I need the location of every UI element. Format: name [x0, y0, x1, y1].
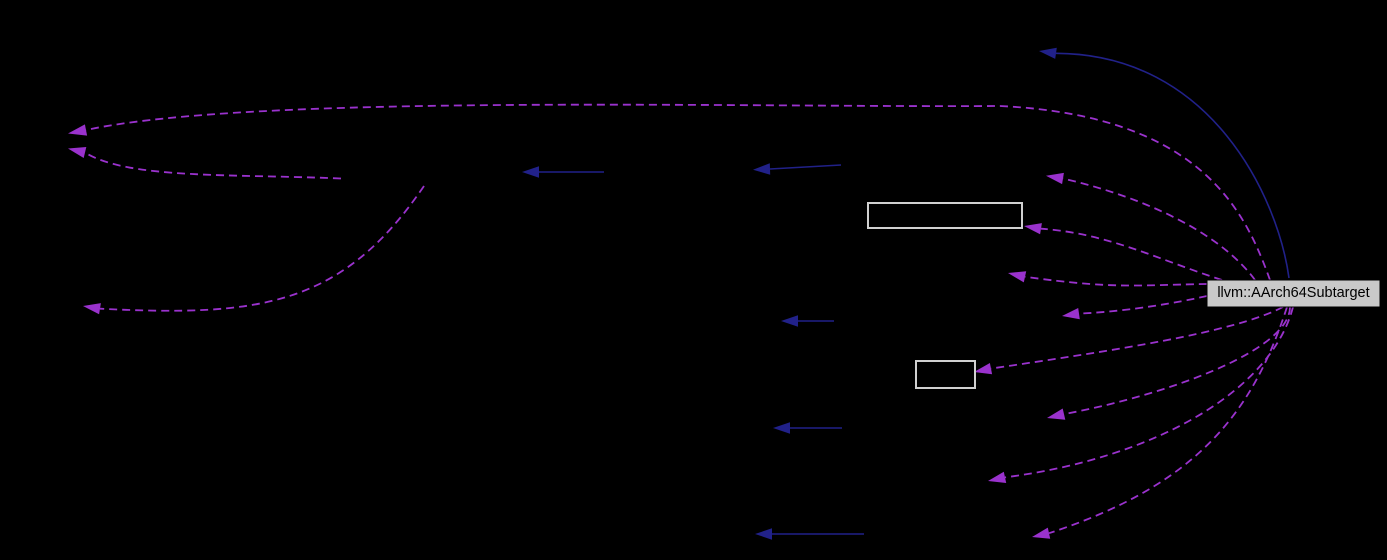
wire inheritB: [539, 171, 604, 173]
wire edge11 (node to mid node F): [1049, 307, 1287, 533]
wire edge2 (short left curve): [85, 153, 341, 179]
wire edge1 (node to far-left top sweep): [86, 105, 1270, 280]
node llvm::AArch64Subtarget: [1207, 280, 1380, 307]
node box1 (empty outlined): [868, 203, 1022, 228]
wire inheritC: [770, 165, 841, 169]
wire edge8 (node to box2): [991, 307, 1283, 369]
node box2 (empty outlined): [916, 361, 975, 388]
wire edge4 (node to mid node A): [1063, 179, 1255, 281]
wire edge9 (node to mid node D): [1064, 307, 1290, 414]
wire edge3 (down-left curve): [100, 186, 424, 311]
wire edge5 (node to box1): [1041, 229, 1222, 280]
wire inheritE: [790, 427, 842, 429]
svg-text:llvm::AArch64Subtarget: llvm::AArch64Subtarget: [1217, 285, 1369, 301]
wire inheritF: [772, 533, 864, 535]
wire edge10 (node to mid node E): [1005, 307, 1293, 477]
wire edge7 (node to mid node C): [1079, 296, 1207, 314]
wire edge6 (node to mid node B): [1025, 277, 1207, 286]
wire inheritA (node to top curved): [1056, 53, 1289, 278]
wire inheritD: [798, 320, 834, 322]
